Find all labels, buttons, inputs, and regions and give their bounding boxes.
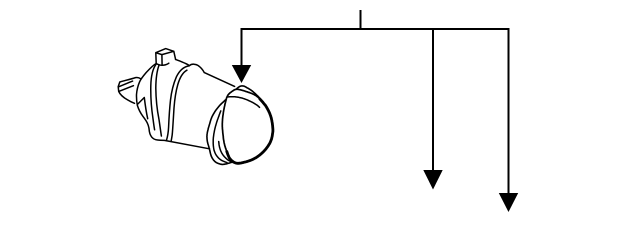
cylinder top silhouette — [176, 59, 235, 86]
socket base seam lines — [137, 98, 148, 119]
arrowhead left — [232, 65, 251, 83]
top tab base curve — [156, 63, 169, 65]
flange ridge arc 1 — [167, 66, 190, 141]
callout horizontal line — [241, 28, 510, 30]
lens rim outer edge — [207, 86, 263, 164]
flange ridge arc 2 — [171, 70, 187, 141]
callout right leader — [508, 29, 510, 194]
socket base housing silhouette with lower bump tab and cylinder bottom silhouette — [136, 64, 209, 149]
callout left leader — [241, 29, 243, 66]
callout stub line — [360, 10, 362, 29]
lens face outline thick lower-right — [227, 99, 273, 163]
flange ring rolled edge arc — [156, 65, 162, 136]
lens rim inner arc — [219, 142, 233, 163]
flange ring outer edge arc — [151, 64, 157, 130]
callout middle leader — [432, 29, 434, 171]
arrowhead right — [499, 193, 518, 212]
connector slot lines — [118, 81, 133, 91]
electrical connector wedge — [118, 77, 141, 103]
lens rim rolled edge arc — [213, 111, 227, 163]
top locking tab — [156, 49, 176, 66]
lens bezel inner arc — [228, 97, 260, 108]
lens face — [222, 89, 273, 163]
arrowhead middle — [423, 170, 442, 190]
